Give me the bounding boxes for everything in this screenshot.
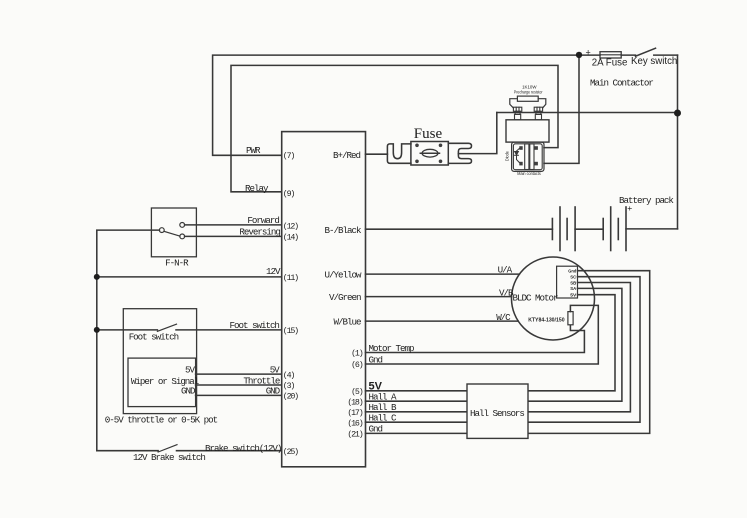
wire throttle GND pin20: [196, 394, 282, 396]
wire W phase: [366, 320, 519, 322]
svg-text:Brake switch(12V): Brake switch(12V): [205, 443, 281, 454]
svg-text:Main contacts: Main contacts: [517, 171, 541, 176]
wire U phase: [366, 273, 520, 275]
wire fuse to contactor node: [458, 113, 496, 154]
F-N-R switch S2 box: [151, 208, 196, 257]
fuse F1 bolt holes: [415, 144, 442, 164]
contactor K1 contacts: [519, 146, 538, 165]
svg-text:KTY84-130/150: KTY84-130/150: [528, 317, 564, 323]
svg-text:Hall Sensors: Hall Sensors: [470, 408, 524, 419]
wire key switch to battery +: [677, 55, 679, 229]
wire PWR loop pin7: [213, 55, 579, 155]
svg-text:(7): (7): [283, 151, 295, 161]
svg-text:U/Yellow: U/Yellow: [325, 269, 362, 280]
KTY84 sensor R2: [568, 312, 573, 325]
svg-text:SC: SC: [570, 274, 576, 280]
svg-text:(11): (11): [283, 273, 298, 283]
hall sensors box: [467, 384, 528, 438]
svg-text:2A Fuse: 2A Fuse: [592, 58, 628, 69]
svg-text:5V: 5V: [270, 365, 280, 376]
svg-text:Hall A: Hall A: [369, 391, 397, 402]
wire motor temp pin1: [366, 325, 585, 353]
svg-text:(21): (21): [347, 430, 362, 440]
svg-text:(18): (18): [347, 397, 362, 407]
svg-text:Relay: Relay: [245, 183, 269, 194]
svg-text:BLDC Motor: BLDC Motor: [513, 292, 558, 303]
fuse F2 2A: [600, 52, 621, 58]
wire hall C pin16: [366, 277, 641, 423]
wire battery mid link: [575, 228, 603, 230]
svg-text:5V: 5V: [570, 293, 577, 299]
node key switch tap: [576, 52, 582, 58]
battery BT2 plates: [603, 207, 626, 251]
F-N-R contact circles: [159, 228, 164, 233]
wire brake switch pin25: [177, 450, 282, 452]
hall connector J1: [557, 266, 578, 298]
wire contactor stud line: [497, 112, 678, 114]
svg-text:(5): (5): [351, 387, 363, 397]
svg-text:SB: SB: [570, 280, 576, 286]
wire reversing pin14: [185, 235, 282, 237]
brake switch S4 lever: [158, 445, 177, 452]
motor M1 circle: [512, 257, 595, 340]
svg-text:W/C: W/C: [496, 312, 511, 323]
svg-text:12V Brake switch: 12V Brake switch: [133, 452, 205, 463]
wire coil to key switch node: [544, 55, 579, 163]
wire 2A fuse feed: [579, 54, 600, 56]
F-N-R common wire: [97, 230, 160, 451]
wire hall A pin18: [366, 288, 622, 401]
svg-text:W/Blue: W/Blue: [334, 316, 361, 327]
svg-text:(3): (3): [283, 381, 295, 391]
wire temp gnd pin6: [366, 305, 599, 364]
wire 12V pin11: [97, 276, 282, 278]
svg-text:GND: GND: [181, 386, 196, 397]
svg-text:Gnd: Gnd: [568, 268, 576, 274]
svg-text:B-/Black: B-/Black: [325, 225, 362, 236]
svg-text:Main Contactor: Main Contactor: [590, 77, 653, 88]
svg-text:(4): (4): [283, 370, 295, 380]
controller U1: [282, 132, 366, 467]
node foot switch tap: [94, 327, 100, 333]
svg-text:Foot switch: Foot switch: [129, 332, 179, 343]
wire V phase: [366, 296, 512, 298]
svg-text:(25): (25): [283, 447, 298, 457]
wire throttle 5V pin4: [196, 373, 282, 375]
svg-text:U/A: U/A: [498, 265, 513, 276]
fuse F1 ANL right fork: [448, 143, 471, 163]
foot switch S3 box: [123, 309, 196, 414]
fuse F1 center element: [422, 149, 438, 157]
throttle box: [128, 358, 196, 407]
svg-text:12V: 12V: [266, 266, 281, 277]
svg-text:GND: GND: [266, 386, 281, 397]
wire hall 5V pin5: [366, 295, 616, 391]
svg-text:Hall B: Hall B: [369, 402, 397, 413]
svg-text:+: +: [586, 48, 591, 58]
svg-text:Foot switch: Foot switch: [230, 320, 280, 331]
wire brake switch left: [97, 450, 158, 452]
svg-text:Fuse: Fuse: [414, 126, 443, 142]
svg-text:Gnd: Gnd: [369, 424, 383, 435]
svg-text:Battery pack: Battery pack: [619, 195, 674, 206]
svg-text:PWR: PWR: [246, 145, 261, 156]
node 12V tap: [94, 274, 100, 280]
wire foot switch pin15: [176, 329, 282, 331]
svg-text:SA: SA: [570, 286, 576, 292]
contactor K1 left stud: [513, 107, 521, 120]
svg-text:B+/Red: B+/Red: [333, 150, 360, 161]
wire B+ pin to fuse: [366, 153, 388, 155]
wire relay loop pin9: [231, 65, 558, 191]
svg-text:(1): (1): [351, 349, 363, 359]
contactor K1 main contact housing: [512, 142, 544, 171]
svg-text:5V: 5V: [185, 365, 195, 376]
wire B- pin to battery: [366, 228, 553, 230]
contactor K1 diode D1: [515, 149, 520, 163]
svg-text:F-N-R: F-N-R: [165, 258, 189, 269]
contactor K1 moving bars: [525, 144, 529, 170]
svg-text:(16): (16): [347, 418, 362, 428]
svg-text:0-5V throttle or 0-5K pot: 0-5V throttle or 0-5K pot: [105, 415, 218, 426]
svg-text:V/Green: V/Green: [329, 292, 361, 303]
key switch S1: [621, 54, 635, 56]
svg-text:Precharge resistor: Precharge resistor: [514, 90, 543, 95]
svg-text:(14): (14): [283, 232, 298, 242]
svg-text:(20): (20): [283, 392, 298, 402]
wire hall B pin17: [366, 283, 631, 412]
node battery plus: [674, 110, 681, 117]
svg-text:Key switch: Key switch: [631, 56, 677, 67]
fuse F1 ANL left fork: [387, 144, 411, 163]
wire battery + stub: [626, 228, 678, 230]
svg-text:(17): (17): [347, 408, 362, 418]
svg-text:(12): (12): [283, 221, 298, 231]
svg-text:Motor Temp: Motor Temp: [369, 343, 414, 354]
hall connector labels: [568, 268, 577, 298]
svg-text:Hall C: Hall C: [369, 412, 397, 423]
F-N-R lever: [164, 231, 180, 236]
contactor K1 right stud: [534, 107, 542, 120]
foot switch lever: [157, 324, 176, 331]
wire forward pin12: [185, 224, 282, 226]
svg-text:(9): (9): [283, 189, 295, 199]
wire hall gnd pin21: [366, 271, 650, 434]
svg-text:(15): (15): [283, 326, 298, 336]
wire foot switch left: [97, 329, 158, 331]
svg-text:Reversing: Reversing: [239, 226, 280, 237]
svg-text:Gnd: Gnd: [369, 354, 383, 365]
fuse F1 ANL body: [411, 142, 448, 166]
wire throttle signal pin3: [196, 384, 282, 386]
battery BT1 plates: [552, 207, 575, 251]
contactor K1 precharge resistor R1: [517, 96, 538, 101]
svg-text:(6): (6): [351, 360, 363, 370]
contactor K1 body: [506, 120, 549, 142]
svg-text:Diode: Diode: [505, 151, 510, 161]
svg-text:Forward: Forward: [247, 215, 279, 226]
